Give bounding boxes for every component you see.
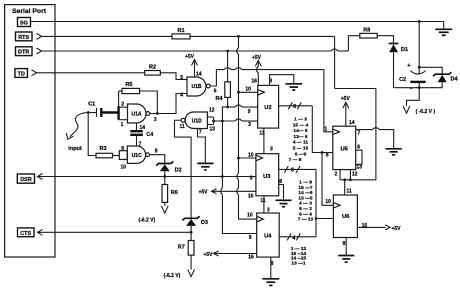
svg-text:U1D: U1D: [192, 118, 202, 124]
svg-text:1: 1: [121, 122, 124, 128]
svg-text:7: 7: [139, 141, 142, 147]
diode D2 (zener): [156, 161, 181, 176]
wire R8 to D1: [377, 36, 393, 44]
wire U5 pin7 to ground: [356, 128, 394, 149]
serial port connector box: [5, 5, 55, 257]
wire U1A input tie bar: [117, 106, 119, 120]
wire U1C out to D2: [149, 155, 164, 164]
ground U2 pin8: [285, 84, 302, 90]
diode D3 (zener): [182, 216, 208, 240]
flip-flop U5: [324, 120, 362, 177]
wire U2 pin8 to ground: [270, 75, 294, 86]
pin DTR: [16, 47, 42, 56]
svg-text:RTS: RTS: [18, 35, 29, 41]
svg-text:9: 9: [249, 235, 252, 241]
wire U2 pin10: [239, 91, 258, 93]
svg-text:2: 2: [335, 171, 338, 177]
svg-text:DSR: DSR: [20, 177, 32, 183]
svg-text:3: 3: [270, 146, 273, 152]
svg-text:U3: U3: [263, 174, 271, 180]
svg-text:R4: R4: [215, 96, 223, 102]
svg-text:U2: U2: [264, 105, 271, 111]
wire DTR line: [42, 49, 349, 51]
svg-text:1: 1: [324, 126, 327, 132]
svg-text:+5V: +5V: [391, 226, 401, 232]
node U1A output / R5: [156, 112, 159, 115]
wire U6 pin16 to +5V arrow: [357, 225, 401, 232]
svg-text:+5V: +5V: [341, 96, 351, 102]
resistor R8: [360, 27, 377, 38]
resistor R2: [145, 64, 161, 75]
svg-text:R6: R6: [171, 190, 178, 196]
svg-text:C4: C4: [146, 132, 154, 138]
resistor R5 feedback: [119, 82, 158, 114]
wire U5 pins2,12 to return line: [340, 170, 350, 180]
svg-text:7 — 8: 7 — 8: [289, 157, 302, 163]
wire U1A out to U1B pin4: [150, 94, 187, 114]
svg-text:13 ---5: 13 ---5: [298, 195, 312, 201]
wire U6 pin8 to ground: [345, 238, 347, 256]
svg-text:7 --- 13: 7 --- 13: [298, 217, 314, 223]
svg-text:3: 3: [154, 117, 157, 123]
svg-text:1 — 3: 1 — 3: [294, 117, 307, 123]
wire U1D input tie 12-13: [207, 117, 213, 125]
op-amp U1C (NAND gate): [119, 141, 158, 170]
node DSR-N1 junction: [221, 175, 224, 178]
svg-text:CTS: CTS: [20, 231, 31, 237]
node D2-DSR junction: [163, 175, 166, 178]
svg-text:TD: TD: [18, 72, 25, 78]
svg-text:11: 11: [347, 188, 353, 194]
wire U4 output bus: [279, 236, 316, 238]
svg-text:13: 13: [356, 165, 362, 171]
wire DSR line: [38, 176, 256, 178]
svg-text:11: 11: [260, 198, 266, 204]
svg-text:10: 10: [325, 199, 331, 205]
svg-text:+5V: +5V: [203, 252, 213, 258]
node U5 pin8 / U6 clock tap: [321, 151, 324, 154]
wire U1B pin6 output: [210, 68, 324, 86]
svg-text:R7: R7: [178, 245, 185, 251]
resistor R1: [172, 28, 190, 39]
wire TD line: [37, 72, 145, 74]
resistor R3: [96, 146, 119, 158]
+5V supply arrow above U2: [252, 55, 262, 85]
wire CTS line: [38, 231, 192, 233]
svg-text:10: 10: [248, 152, 254, 158]
node R4 bottom junction: [226, 106, 229, 109]
svg-text:6 —9: 6 —9: [295, 151, 307, 157]
wire RTS line left: [42, 35, 173, 37]
ground U5 pin7: [385, 149, 401, 155]
wire U3 pin11 to U4 pin3: [263, 196, 265, 213]
-6.2V arrow below R6: [138, 206, 168, 224]
svg-text:9: 9: [250, 175, 253, 181]
counter U3: [248, 146, 282, 204]
node RTS-U2 clock: [237, 91, 240, 94]
svg-text:4 --- 3: 4 --- 3: [299, 201, 312, 207]
node pin12 junction: [349, 178, 352, 181]
svg-text:R3: R3: [99, 146, 106, 152]
op-amp U1B (NAND gate): [180, 72, 217, 99]
svg-text:D3: D3: [201, 220, 208, 226]
svg-text:R2: R2: [149, 64, 156, 70]
svg-text:+: +: [407, 63, 410, 69]
svg-text:5 --- 2: 5 --- 2: [299, 206, 312, 212]
pin DSR: [17, 174, 42, 184]
wire DTR to R8 riser: [348, 36, 359, 51]
svg-text:10: 10: [121, 164, 127, 170]
wire U1D pin7 to ground: [198, 129, 206, 164]
bus width marker /4/ on U4 output: [287, 233, 300, 241]
diode D4 (zener): [419, 67, 458, 87]
+5V arrow for U4 pin16: [203, 251, 256, 258]
-6.2V arrow below R7: [164, 270, 195, 280]
wire U1D pin11 output to D3: [175, 120, 192, 218]
node pin2/11 junction: [343, 178, 346, 181]
svg-text:12: 12: [352, 171, 358, 177]
wire D1 to C2 node: [394, 87, 420, 89]
wire U5 pins6-13 loop: [356, 150, 362, 164]
wire U1D inputs to U2 pin3: [214, 119, 258, 121]
svg-text:DTR: DTR: [18, 50, 29, 56]
op-amp U1D (NAND gate, mirrored): [180, 107, 216, 135]
node RTS-U3 clock: [237, 157, 240, 160]
flip-flop U6: [325, 188, 367, 247]
svg-text:4: 4: [292, 236, 295, 242]
svg-text:(-6.2 V): (-6.2 V): [164, 273, 181, 279]
counter U4: [247, 208, 279, 267]
wire U1A input stubs: [119, 106, 128, 108]
bus width marker /8/ on U2 output: [288, 102, 301, 110]
svg-text:10: 10: [247, 213, 253, 219]
svg-text:D2: D2: [175, 167, 182, 173]
pin TD: [15, 69, 37, 78]
svg-text:U6: U6: [342, 214, 350, 220]
resistor R7: [178, 241, 194, 270]
pin SG: [18, 18, 31, 27]
wire input node down to R3: [88, 113, 96, 156]
pin RTS: [16, 32, 42, 41]
node D3-CTS junction: [190, 231, 193, 234]
svg-text:13— 6: 13— 6: [293, 134, 307, 140]
wire U3 output bus: [279, 168, 316, 170]
svg-text:5 — 10: 5 — 10: [293, 146, 309, 152]
svg-text:input: input: [68, 146, 82, 152]
svg-text:1 — 9: 1 — 9: [299, 180, 312, 186]
wire N1 to U2 pin9: [228, 105, 258, 107]
node U1D inputs junction: [212, 120, 215, 123]
wire R2 to U1B pin5: [160, 73, 187, 80]
svg-text:6: 6: [214, 88, 217, 94]
node input-C1 junction: [87, 111, 90, 114]
svg-text:9: 9: [121, 146, 124, 152]
wire RTS return path: [335, 36, 376, 179]
svg-text:11: 11: [180, 124, 186, 130]
svg-text:2: 2: [121, 102, 124, 108]
svg-text:8: 8: [326, 153, 329, 159]
svg-text:6 --- 4: 6 --- 4: [299, 211, 312, 217]
wire U6 clock feed: [322, 153, 333, 206]
svg-text:8: 8: [293, 104, 296, 110]
wire U4 pin8 to ground: [270, 257, 272, 278]
svg-text:R5: R5: [125, 82, 132, 88]
svg-text:16: 16: [248, 194, 254, 200]
svg-text:4: 4: [180, 93, 183, 99]
svg-text:( -6.2 V ): ( -6.2 V ): [416, 109, 436, 115]
svg-text:7: 7: [199, 130, 202, 136]
svg-text:R8: R8: [363, 27, 370, 33]
svg-text:U1C: U1C: [132, 153, 142, 159]
input probe squiggle: [66, 113, 88, 153]
svg-text:13: 13: [209, 126, 215, 132]
op-amp U1A (NAND gate): [121, 102, 157, 131]
svg-text:16: 16: [362, 223, 368, 229]
svg-text:13 ---1: 13 ---1: [291, 261, 305, 267]
node SG-C2 junction: [418, 20, 421, 23]
svg-text:16: 16: [248, 255, 254, 261]
wire U2 bus down to U5 pin8: [312, 106, 333, 153]
node bus to U6 pin13: [315, 217, 318, 220]
+5V arrow for U3 pin16: [198, 189, 255, 196]
wire U6 pin13 feed: [316, 218, 333, 220]
svg-text:+5V: +5V: [198, 190, 208, 196]
svg-text:U5: U5: [340, 147, 348, 153]
node RTS clock tap: [237, 35, 240, 38]
wire U3 ground pin: [279, 185, 284, 201]
ground U1D pin7: [197, 163, 213, 170]
wire C1 to U1A inputs (thick): [102, 111, 118, 113]
counter U2: [245, 79, 278, 137]
capacitor C1: [88, 102, 101, 117]
wire U3 pin10: [239, 157, 256, 159]
pin map list U2: [289, 117, 309, 164]
svg-text:12: 12: [209, 107, 215, 113]
+5V supply arrow above U5: [341, 96, 351, 126]
capacitor C2 (polarized): [399, 63, 426, 89]
+5V supply arrow above U1B: [185, 54, 198, 77]
wire N1 link down: [222, 107, 227, 121]
pin CTS: [18, 228, 43, 237]
wire C2 bottom to -6.2V arrow: [407, 82, 420, 106]
svg-text:15 — 4: 15 — 4: [293, 122, 309, 128]
resistor R6: [162, 177, 178, 206]
node N1-pin3 junction: [221, 120, 224, 123]
svg-text:D4: D4: [450, 76, 458, 82]
svg-text:C2: C2: [399, 77, 406, 83]
svg-text:D1: D1: [401, 47, 408, 53]
wire RTS line right: [190, 35, 335, 37]
wire U3/U4 bus vertical: [315, 169, 317, 236]
svg-text:4 — 11: 4 — 11: [293, 140, 309, 146]
capacitor C4: [130, 123, 154, 146]
svg-text:15 ---7: 15 ---7: [298, 185, 312, 191]
wire TD-gate net down to U5 pin1: [324, 70, 333, 132]
svg-text:U1B: U1B: [191, 84, 201, 90]
svg-text:5: 5: [180, 75, 183, 81]
wire U2 pin11 to U3 pin3: [263, 128, 265, 154]
pin map list U3: [298, 180, 314, 223]
svg-text:14 ---6: 14 ---6: [298, 190, 312, 196]
svg-text:14— 5: 14— 5: [293, 128, 307, 134]
wire U2 output bus: [279, 105, 313, 107]
node D4 bottom junction: [418, 86, 421, 89]
svg-text:R1: R1: [177, 28, 184, 34]
svg-text:(-6.2 V): (-6.2 V): [138, 218, 155, 224]
-6.2V arrow right: [403, 106, 435, 115]
svg-text:9: 9: [248, 109, 251, 115]
svg-text:8: 8: [343, 241, 346, 247]
svg-text:U4: U4: [264, 234, 272, 240]
svg-text:14: 14: [349, 120, 355, 126]
bus width marker /8/ on U3 output: [284, 166, 300, 173]
wire main -6.2V vertical: [418, 22, 420, 75]
svg-text:+5V: +5V: [252, 55, 262, 61]
svg-text:Serial Port: Serial Port: [12, 8, 47, 15]
svg-text:8: 8: [291, 167, 294, 173]
svg-text:3: 3: [248, 122, 251, 128]
ground U4 pin8: [262, 279, 279, 286]
wire SG line: [31, 21, 444, 23]
svg-text:C1: C1: [88, 102, 95, 108]
svg-text:7: 7: [358, 131, 361, 137]
ground U3 pin8: [276, 200, 292, 206]
pin map list U4: [291, 246, 307, 266]
svg-text:U1A: U1A: [131, 112, 141, 118]
diode D1: [389, 44, 408, 88]
ground top right: [435, 22, 452, 36]
svg-text:14: 14: [196, 72, 202, 78]
resistor R4: [215, 51, 230, 107]
node DTR-R4 tap: [226, 50, 229, 53]
wire U5 node to U6 pin11: [344, 180, 346, 195]
svg-text:SG: SG: [20, 21, 28, 27]
svg-text:8: 8: [155, 148, 158, 154]
wire N1 vertical to U4 pin9: [221, 121, 257, 234]
svg-text:3: 3: [267, 208, 270, 214]
wire RTS clock vertical: [237, 36, 257, 219]
ground U6 pin8: [338, 256, 354, 263]
svg-text:10: 10: [245, 87, 251, 93]
node D4 top junction: [418, 66, 421, 69]
svg-text:+5V: +5V: [185, 54, 195, 60]
svg-text:16: 16: [251, 79, 257, 85]
